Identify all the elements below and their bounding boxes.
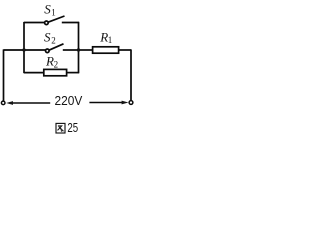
svg-text:220V: 220V [55, 93, 83, 108]
switch S1 pivot circle [45, 21, 49, 25]
resistor R2 box [44, 69, 67, 75]
wire S1 branch left segment [24, 22, 45, 24]
svg-text:25: 25 [67, 120, 78, 135]
svg-text:1: 1 [108, 35, 113, 45]
node junction dot left (S2 branch / left vertical) [22, 48, 25, 51]
svg-text:1: 1 [51, 7, 56, 17]
wire right outer vertical [130, 49, 132, 100]
svg-text:2: 2 [51, 35, 56, 45]
caption glyph 图 (drawn) [56, 123, 65, 133]
wire right inner vertical [78, 22, 80, 73]
label R2 [45, 53, 58, 69]
wire left outer vertical [3, 49, 5, 101]
wire left inner vertical [23, 22, 25, 73]
switch S1 blade [48, 16, 64, 22]
label S1 [44, 1, 55, 17]
wire S2 branch left segment [4, 49, 46, 51]
arrow toward right terminal [89, 101, 128, 105]
switch S2 pivot circle [46, 49, 50, 53]
terminal right (open circle) [129, 101, 133, 105]
wire S2 branch right segment [63, 49, 79, 51]
svg-text:2: 2 [54, 60, 59, 70]
switch S2 blade [49, 44, 64, 50]
terminal left (open circle) [1, 101, 5, 105]
node junction dot right (R1 wire / right vertical) [77, 48, 80, 51]
svg-text:S: S [44, 29, 51, 44]
resistor R1 box [93, 47, 119, 53]
label R1 [99, 30, 112, 46]
wire R2 branch right segment [67, 72, 80, 74]
wire R2 branch left segment [24, 72, 44, 74]
wire S1 branch right segment [62, 22, 79, 24]
wire R1 branch left segment [79, 49, 93, 51]
wire R1 branch right segment [119, 49, 131, 51]
arrow toward left terminal [6, 101, 50, 105]
label S2 [44, 29, 56, 45]
